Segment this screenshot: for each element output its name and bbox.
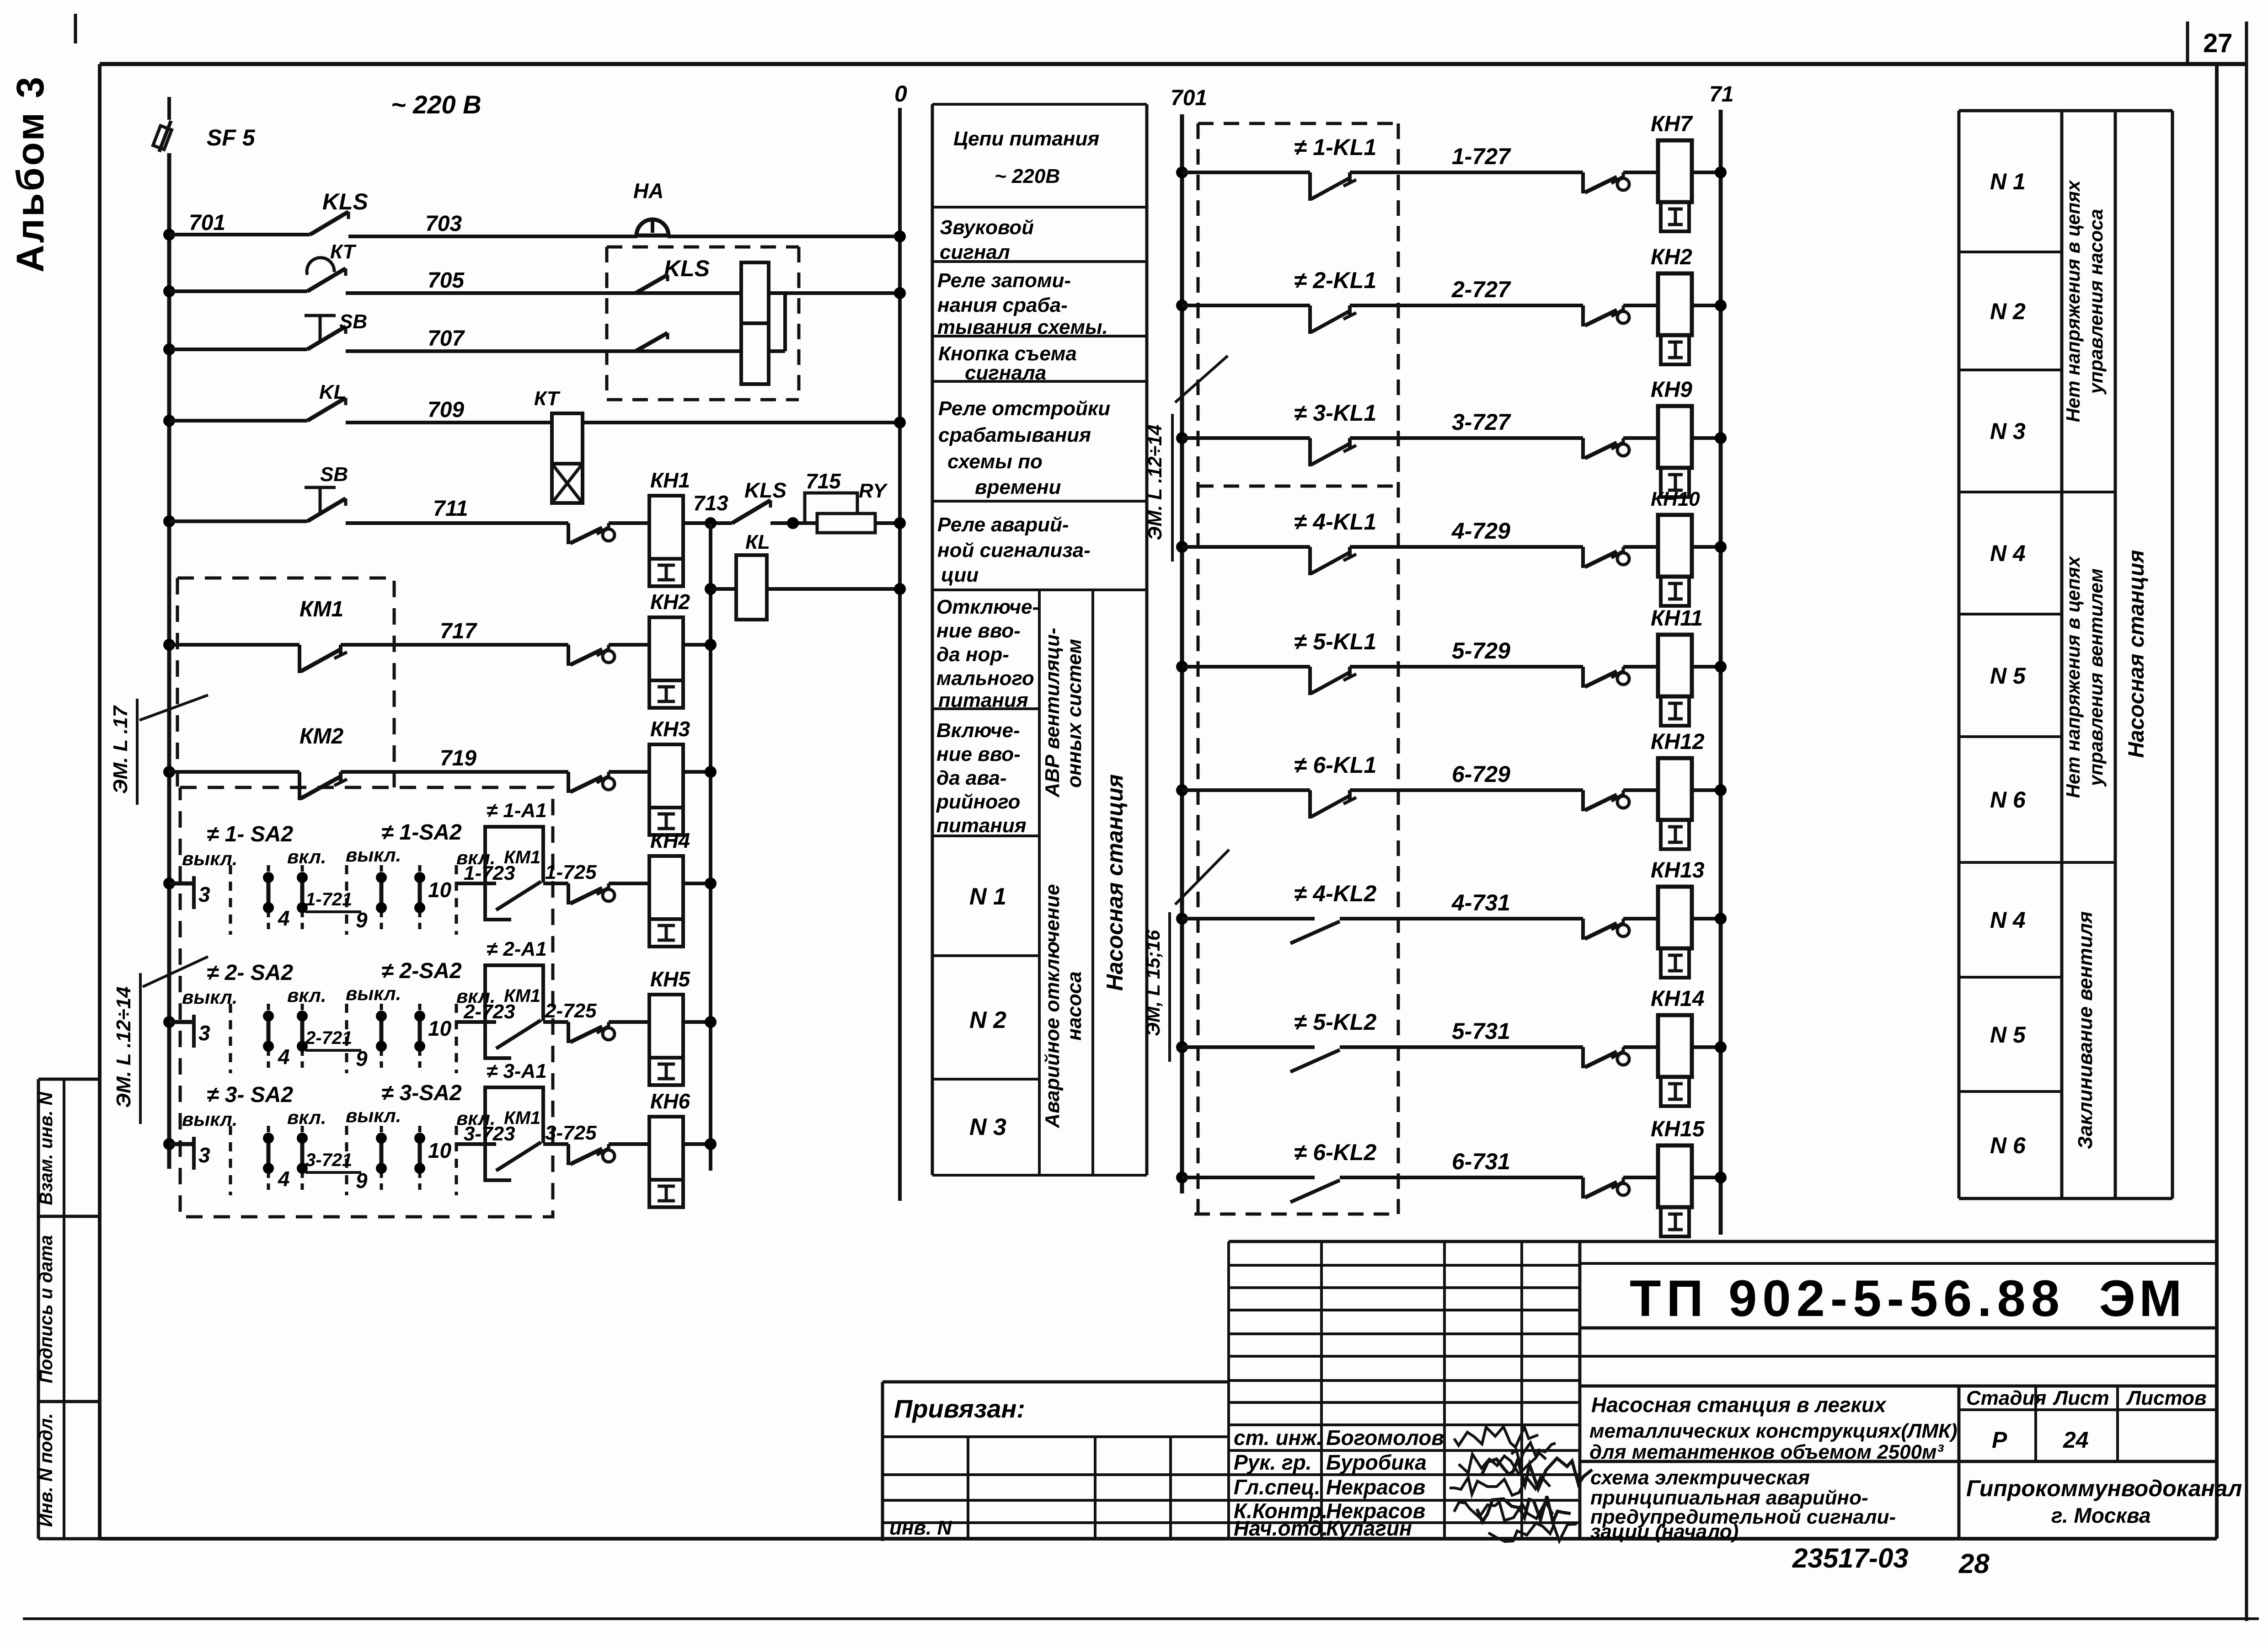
svg-text:онных систем: онных систем: [1063, 639, 1086, 788]
svg-text:КМ1: КМ1: [300, 597, 343, 621]
svg-text:23517-03: 23517-03: [1792, 1543, 1909, 1573]
svg-text:КН6: КН6: [650, 1089, 690, 1113]
svg-text:ции: ции: [941, 564, 979, 586]
svg-text:металлических конструкциях(ЛМК: металлических конструкциях(ЛМК): [1589, 1420, 1958, 1442]
svg-text:Привязан:: Привязан:: [894, 1394, 1025, 1423]
svg-text:Насосная станция: Насосная станция: [1102, 774, 1128, 991]
svg-text:нания сраба-: нания сраба-: [937, 294, 1068, 316]
svg-text:КН4: КН4: [650, 829, 690, 852]
svg-text:КТ: КТ: [534, 387, 561, 410]
svg-text:управления насоса: управления насоса: [2085, 209, 2107, 395]
svg-text:~ 220В: ~ 220В: [995, 165, 1060, 187]
svg-text:да ава-: да ава-: [936, 767, 1006, 789]
svg-text:зации (начало): зации (начало): [1590, 1520, 1738, 1543]
svg-text:71: 71: [1709, 82, 1733, 107]
svg-text:г. Москва: г. Москва: [2051, 1504, 2151, 1527]
svg-text:Заклинивание вентиля: Заклинивание вентиля: [2074, 911, 2097, 1149]
svg-text:Буробика: Буробика: [1326, 1450, 1427, 1474]
svg-text:≠ 6-KL2: ≠ 6-KL2: [1294, 1140, 1376, 1165]
svg-text:КН15: КН15: [1651, 1117, 1705, 1141]
svg-text:вкл.: вкл.: [287, 985, 326, 1006]
svg-text:6-729: 6-729: [1452, 761, 1510, 787]
svg-text:1-723: 1-723: [464, 862, 515, 884]
svg-text:Богомолов: Богомолов: [1326, 1426, 1444, 1450]
svg-text:KLS: KLS: [322, 189, 368, 214]
svg-text:717: 717: [440, 619, 477, 643]
svg-text:выкл.: выкл.: [182, 986, 237, 1008]
svg-text:≠ 2- SA2: ≠ 2- SA2: [207, 961, 293, 985]
svg-text:701: 701: [1171, 86, 1207, 110]
svg-text:Лист: Лист: [2053, 1387, 2109, 1409]
svg-text:тывания схемы.: тывания схемы.: [937, 316, 1108, 338]
svg-text:Отключе-: Отключе-: [936, 596, 1039, 618]
svg-text:времени: времени: [975, 476, 1061, 498]
svg-text:3-723: 3-723: [464, 1123, 515, 1145]
svg-text:Листов: Листов: [2126, 1387, 2207, 1409]
svg-text:КН9: КН9: [1651, 378, 1692, 402]
svg-text:КН2: КН2: [650, 590, 690, 614]
svg-text:выкл.: выкл.: [182, 1108, 237, 1130]
svg-text:≠ 1- SA2: ≠ 1- SA2: [207, 822, 293, 846]
svg-text:АВР вентиляци-: АВР вентиляци-: [1041, 628, 1064, 798]
svg-text:N 6: N 6: [1990, 1133, 2026, 1158]
svg-text:Аварийное отключение: Аварийное отключение: [1041, 884, 1064, 1128]
svg-text:711: 711: [433, 497, 468, 521]
svg-text:10: 10: [428, 1139, 452, 1162]
svg-text:КН1: КН1: [650, 468, 690, 492]
svg-text:2-727: 2-727: [1451, 277, 1511, 302]
svg-text:707: 707: [428, 326, 465, 351]
svg-text:≠ 5-KL2: ≠ 5-KL2: [1294, 1009, 1376, 1035]
svg-text:вкл.: вкл.: [287, 1107, 326, 1128]
svg-text:2-721: 2-721: [305, 1028, 352, 1048]
svg-text:≠ 3-SA2: ≠ 3-SA2: [381, 1081, 462, 1105]
svg-text:RY: RY: [859, 480, 888, 502]
svg-text:КМ2: КМ2: [300, 724, 343, 749]
svg-text:ние вво-: ние вво-: [936, 743, 1021, 765]
svg-text:≠ 3- SA2: ≠ 3- SA2: [207, 1083, 293, 1107]
svg-text:КТ: КТ: [330, 241, 357, 263]
svg-text:6-731: 6-731: [1452, 1149, 1510, 1174]
svg-text:Некрасов: Некрасов: [1326, 1475, 1425, 1499]
svg-text:27: 27: [2203, 28, 2233, 58]
svg-text:N 6: N 6: [1990, 787, 2026, 813]
svg-text:SF 5: SF 5: [207, 125, 256, 150]
svg-text:719: 719: [440, 746, 476, 770]
svg-text:Нет напряжения в цепях: Нет напряжения в цепях: [2062, 556, 2084, 798]
svg-text:схема электрическая: схема электрическая: [1590, 1466, 1810, 1489]
svg-text:701: 701: [189, 211, 225, 235]
svg-text:≠ 2-KL1: ≠ 2-KL1: [1294, 268, 1376, 293]
svg-text:Реле отстройки: Реле отстройки: [938, 397, 1110, 420]
svg-text:N 3: N 3: [1990, 418, 2026, 444]
svg-text:питания: питания: [938, 689, 1028, 712]
svg-text:КН10: КН10: [1651, 488, 1700, 510]
svg-text:инв. N: инв. N: [889, 1517, 952, 1539]
svg-text:управления вентилем: управления вентилем: [2085, 568, 2107, 787]
svg-text:КН7: КН7: [1651, 112, 1693, 136]
svg-text:выкл.: выкл.: [346, 983, 401, 1004]
svg-text:выкл.: выкл.: [182, 848, 237, 869]
svg-text:SB: SB: [320, 463, 348, 486]
svg-text:Нач.отд.: Нач.отд.: [1234, 1516, 1328, 1540]
svg-text:Реле запоми-: Реле запоми-: [937, 269, 1071, 292]
svg-text:4-731: 4-731: [1451, 890, 1510, 915]
svg-text:3: 3: [198, 883, 210, 906]
svg-text:4-729: 4-729: [1451, 518, 1510, 544]
svg-text:3-721: 3-721: [305, 1150, 352, 1170]
svg-text:3: 3: [198, 1021, 210, 1045]
svg-text:KLS: KLS: [664, 256, 710, 281]
svg-text:Кулагин: Кулагин: [1326, 1516, 1412, 1540]
svg-text:да нор-: да нор-: [936, 643, 1009, 666]
svg-text:N 5: N 5: [1990, 1022, 2026, 1048]
svg-text:4: 4: [278, 1167, 290, 1191]
svg-text:ст. инж.: ст. инж.: [1234, 1426, 1322, 1450]
svg-text:Гипрокоммунводоканал: Гипрокоммунводоканал: [1966, 1476, 2242, 1501]
svg-text:рийного: рийного: [936, 791, 1020, 813]
svg-text:≠ 1-KL1: ≠ 1-KL1: [1294, 134, 1376, 160]
svg-text:N 3: N 3: [969, 1114, 1006, 1140]
svg-text:SB: SB: [339, 310, 367, 333]
svg-text:3-725: 3-725: [545, 1122, 597, 1144]
svg-text:≠ 3-KL1: ≠ 3-KL1: [1294, 400, 1376, 426]
svg-text:схемы по: схемы по: [947, 450, 1043, 473]
svg-text:10: 10: [428, 1017, 452, 1040]
svg-text:Взам. инв. N: Взам. инв. N: [36, 1092, 56, 1205]
svg-text:насоса: насоса: [1063, 971, 1086, 1040]
svg-text:713: 713: [693, 491, 728, 515]
svg-text:ЭМ. L .12÷14: ЭМ. L .12÷14: [1144, 424, 1166, 540]
svg-text:Рук. гр.: Рук. гр.: [1234, 1450, 1312, 1474]
svg-text:≠ 4-KL2: ≠ 4-KL2: [1294, 881, 1376, 906]
svg-text:≠ 2-SA2: ≠ 2-SA2: [381, 959, 462, 983]
svg-text:1-725: 1-725: [545, 861, 597, 883]
svg-text:≠ 5-KL1: ≠ 5-KL1: [1294, 629, 1376, 654]
svg-text:КL: КL: [745, 531, 770, 553]
svg-text:выкл.: выкл.: [346, 1105, 401, 1126]
svg-text:Звуковой: Звуковой: [940, 216, 1034, 239]
svg-text:Инв. N подл.: Инв. N подл.: [36, 1413, 56, 1527]
svg-text:~ 220 В: ~ 220 В: [391, 90, 481, 119]
svg-text:≠ 4-KL1: ≠ 4-KL1: [1294, 509, 1376, 535]
svg-text:Насосная станция: Насосная станция: [2124, 550, 2149, 758]
svg-text:Цепи питания: Цепи питания: [953, 128, 1099, 150]
svg-text:3: 3: [198, 1143, 210, 1167]
svg-text:КН5: КН5: [650, 967, 690, 991]
svg-text:питания: питания: [936, 814, 1027, 837]
svg-text:КН3: КН3: [650, 717, 690, 741]
svg-text:N 1: N 1: [969, 883, 1006, 910]
svg-text:КН2: КН2: [1651, 245, 1692, 269]
svg-text:ЭМ, L 15;16: ЭМ, L 15;16: [1142, 930, 1164, 1036]
svg-text:КН13: КН13: [1651, 858, 1705, 883]
svg-text:КН11: КН11: [1651, 606, 1703, 631]
svg-text:3-727: 3-727: [1452, 409, 1511, 435]
svg-text:705: 705: [428, 268, 465, 293]
svg-text:0: 0: [894, 81, 907, 107]
svg-text:N 2: N 2: [1990, 299, 2026, 324]
svg-text:4: 4: [278, 1045, 290, 1069]
svg-text:Подпись и дата: Подпись и дата: [36, 1235, 56, 1383]
svg-text:Включе-: Включе-: [936, 719, 1020, 742]
svg-text:ЭМ: ЭМ: [2099, 1270, 2186, 1327]
svg-text:4: 4: [278, 906, 290, 930]
svg-text:5-731: 5-731: [1452, 1018, 1510, 1044]
svg-text:2-723: 2-723: [463, 1001, 515, 1023]
svg-text:сигнал: сигнал: [940, 241, 1010, 263]
svg-text:ние вво-: ние вво-: [936, 620, 1021, 642]
svg-text:28: 28: [1958, 1548, 1990, 1579]
svg-text:Гл.спец.: Гл.спец.: [1234, 1475, 1321, 1499]
svg-text:KL: KL: [319, 381, 346, 403]
svg-text:KLS: KLS: [744, 478, 786, 502]
svg-text:ной сигнализа-: ной сигнализа-: [937, 539, 1091, 562]
svg-text:10: 10: [428, 878, 452, 902]
svg-text:для метантенков объемом 250: для метантенков объемом 2500м³: [1589, 1441, 1944, 1463]
svg-text:КН14: КН14: [1651, 987, 1705, 1011]
svg-text:≠ 2-А1: ≠ 2-А1: [487, 938, 547, 960]
svg-text:715: 715: [806, 469, 841, 493]
svg-text:выкл.: выкл.: [346, 844, 401, 866]
svg-text:N 2: N 2: [969, 1007, 1006, 1033]
svg-text:ЭМ. L .12÷14: ЭМ. L .12÷14: [112, 986, 135, 1108]
svg-text:N 5: N 5: [1990, 663, 2026, 689]
svg-text:Р: Р: [1992, 1427, 2007, 1453]
svg-text:5-729: 5-729: [1452, 638, 1510, 663]
svg-text:≠ 3-А1: ≠ 3-А1: [487, 1060, 547, 1082]
svg-text:N 4: N 4: [1990, 907, 2026, 933]
svg-text:КН12: КН12: [1651, 730, 1705, 754]
svg-text:≠ 1-А1: ≠ 1-А1: [487, 799, 547, 822]
svg-text:1-721: 1-721: [305, 889, 352, 910]
svg-text:703: 703: [425, 212, 462, 236]
svg-text:НА: НА: [633, 179, 663, 203]
svg-text:вкл.: вкл.: [287, 846, 326, 867]
svg-text:ТП 902-5-56.88: ТП 902-5-56.88: [1630, 1270, 2065, 1327]
svg-text:2-725: 2-725: [545, 1000, 597, 1022]
svg-text:N 4: N 4: [1990, 540, 2026, 566]
svg-text:Нет напряжения в цепях: Нет напряжения в цепях: [2062, 180, 2084, 422]
svg-text:Реле аварий-: Реле аварий-: [937, 514, 1069, 536]
svg-text:Насосная станция в легких: Насосная станция в легких: [1591, 1393, 1887, 1417]
svg-text:N 1: N 1: [1990, 169, 2026, 194]
svg-text:Стадия: Стадия: [1966, 1387, 2046, 1409]
svg-text:срабатывания: срабатывания: [938, 424, 1091, 446]
svg-text:ЭМ. L .17: ЭМ. L .17: [109, 705, 132, 794]
svg-text:1-727: 1-727: [1452, 144, 1511, 169]
svg-text:мального: мального: [936, 667, 1034, 690]
svg-text:Альбом 3: Альбом 3: [9, 75, 52, 273]
svg-text:24: 24: [2063, 1427, 2089, 1453]
svg-text:709: 709: [428, 398, 464, 422]
svg-text:сигнала: сигнала: [965, 362, 1046, 384]
svg-text:≠ 6-KL1: ≠ 6-KL1: [1294, 752, 1376, 778]
svg-text:≠ 1-SA2: ≠ 1-SA2: [381, 820, 462, 845]
